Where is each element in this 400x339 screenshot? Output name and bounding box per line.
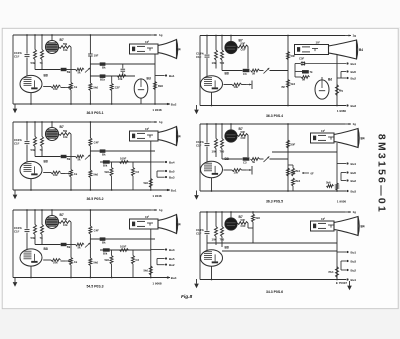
circuit 1: top supply bus wire [13, 34, 151, 36]
wire node long lower (circuit 6) [200, 250, 337, 252]
ground (circuit 1) [14, 104, 16, 109]
tube B7 (circuit 3) [51, 122, 53, 128]
wire terminal stub (circuit 2) [340, 72, 342, 79]
bottom return bus wire (circuit 5) [13, 277, 170, 279]
svg-text:0F: 0F [311, 171, 315, 175]
wire node W1 (circuit 3) [35, 156, 61, 158]
svg-text:Bu3: Bu3 [351, 104, 357, 108]
wire: B7 anode drop (circuit 5) [70, 222, 72, 258]
terminal Bu4 on bus (circuit 6) [346, 278, 348, 280]
svg-text:100F: 100F [120, 157, 127, 161]
tube B7 (circuit 1) [51, 35, 53, 41]
resistor 7k (circuit 5) [41, 210, 43, 225]
wire pot drop (circuit 2) [251, 81, 253, 90]
svg-text:B7: B7 [60, 213, 64, 217]
wire node W1 (circuit 5) [35, 244, 61, 246]
wire: B8 cathode to bus (circuit 5) [30, 266, 32, 277]
junction nodes (circuit 3) [26, 121, 28, 123]
bottom return bus wire (circuit 4) [200, 190, 346, 192]
svg-text:5k0: 5k0 [93, 173, 98, 177]
resistor 5k0 left (circuit 3) [110, 168, 113, 177]
tube Bd output (circuit 1) [134, 79, 148, 98]
resistor 10k (circuit 2) [215, 36, 217, 51]
potentiometer arrow (circuit 1) [61, 87, 66, 89]
svg-text:10k: 10k [234, 171, 239, 175]
svg-text:Bu5: Bu5 [169, 169, 175, 173]
wire drop (circuit 3) [111, 162, 113, 168]
potentiometer wiper arrow (circuit 2) [260, 70, 264, 72]
svg-text:100F: 100F [120, 245, 127, 249]
resistor Bk0 on speaker drop (circuit 1) [154, 82, 157, 90]
wire node (circuit 6) [248, 227, 253, 229]
svg-text:C4F: C4F [94, 141, 100, 145]
wire node W2 (circuit 3) [90, 150, 155, 152]
svg-text:Bu1: Bu1 [351, 278, 357, 282]
svg-text:C2F: C2F [115, 86, 121, 90]
svg-text:9k: 9k [302, 77, 306, 81]
svg-text:B4: B4 [361, 225, 365, 229]
terminal 1g (circuit 3 top bus end) [151, 121, 157, 123]
svg-text:1k: 1k [74, 260, 78, 264]
svg-text:1 9056: 1 9056 [337, 199, 347, 203]
capacitor C1 input (circuit 3) [26, 122, 28, 141]
svg-text:B8: B8 [44, 74, 48, 78]
svg-text:Bu3: Bu3 [169, 176, 175, 180]
svg-text:36.3 P0S.5: 36.3 P0S.5 [266, 199, 283, 203]
ground (circuit 3) [14, 190, 16, 195]
capacitor box C3 (circuit 2) [243, 69, 250, 72]
wire: left edge drop (circuit 6) [199, 212, 201, 280]
svg-text:7k0: 7k0 [220, 238, 225, 242]
resistor 5W 10k at tube B7 anode (circuit 1) [59, 46, 72, 49]
svg-text:50k: 50k [31, 61, 36, 65]
junction nodes (circuit 2) [206, 35, 208, 37]
resistor 5W 10k at tube B7 anode (circuit 3) [59, 133, 72, 136]
terminal Bu4 on bus (circuit 3) [167, 189, 169, 191]
bottom return bus wire (circuit 3) [13, 189, 170, 191]
bottom return bus wire (circuit 1) [13, 103, 170, 105]
svg-text:Bu2: Bu2 [169, 263, 175, 267]
resistor B1k box lower (circuit 1) [100, 74, 106, 78]
resistor 1k (circuit 5) [70, 258, 73, 266]
svg-text:8M3156—01: 8M3156—01 [375, 134, 386, 214]
svg-text:Fig.8: Fig.8 [181, 294, 193, 300]
tube B8 triode (circuit 3) [20, 161, 42, 178]
terminal 1g (circuit 5 top bus end) [151, 209, 157, 211]
capacitor C2 (circuit 5) [132, 256, 135, 265]
loudspeaker B4 horn (circuit 5) [130, 219, 159, 229]
wire node W2 (circuit 4) [222, 158, 243, 160]
terminal Bu1 (circuit 5) [151, 249, 165, 251]
tube B7 (circuit 2) [230, 36, 232, 42]
wire: center drop (circuit 1) [89, 35, 91, 83]
svg-text:Bu1: Bu1 [351, 250, 357, 254]
svg-text:5k0: 5k0 [105, 170, 110, 174]
terminal Bu2 (circuit 3) [157, 170, 165, 172]
resistor B/k box (circuit 5) [103, 248, 110, 251]
svg-text:C1F: C1F [14, 142, 20, 146]
svg-text:10³: 10³ [145, 40, 149, 44]
wire: B8 cathode to bus (circuit 6) [211, 266, 213, 279]
terminal Bu4 on bus (circuit 2) [346, 104, 348, 106]
resistor 10k horizontal (circuit 1) [117, 75, 126, 78]
resistor 7k0 (circuit 6) [221, 212, 223, 227]
resistor Bk box (circuit 3) [61, 155, 67, 158]
svg-text:B/k: B/k [103, 252, 108, 256]
resistor C2F (circuit 1) [111, 76, 113, 84]
svg-text:50F: 50F [241, 42, 246, 46]
wire (circuit 4) [270, 158, 289, 160]
terminal 1g (circuit 6 top bus end) [349, 211, 351, 213]
svg-text:B8: B8 [44, 160, 48, 164]
resistor 10k (circuit 6) [215, 212, 217, 227]
svg-text:Bk1: Bk1 [296, 170, 301, 173]
tube B8 triode (circuit 2) [201, 76, 223, 92]
svg-text:1 9048: 1 9048 [152, 194, 162, 198]
svg-text:B8: B8 [225, 246, 229, 250]
junction nodes (circuit 4) [206, 123, 208, 125]
wire: speaker drop (circuit 6) [336, 231, 338, 280]
circuit 2: top supply bus wire [200, 35, 345, 37]
wire: speaker drop (circuit 1) [154, 54, 156, 104]
loudspeaker B4 horn (circuit 3) [130, 131, 159, 141]
terminal Bu2 on bus (circuit 1) [167, 103, 169, 105]
wire node W3 (circuit 3) [100, 161, 151, 163]
loudspeaker B4 horn (circuit 6) [311, 221, 335, 231]
resistor Bk box upper (circuit 5) [100, 237, 106, 240]
svg-text:54.5 P0S.3: 54.5 P0S.3 [86, 285, 103, 289]
resistor WB 9k (circuit 2) [301, 76, 310, 79]
svg-text:Bu1: Bu1 [171, 188, 177, 192]
svg-text:B4: B4 [177, 135, 181, 139]
loudspeaker B4 horn (circuit 1) [130, 44, 159, 54]
svg-text:1g: 1g [159, 33, 163, 37]
svg-text:7k: 7k [40, 61, 44, 65]
svg-text:1g: 1g [159, 120, 163, 124]
resistor 50F at tube B7 anode (circuit 4) [237, 134, 248, 137]
capacitor 10F on center drop (circuit 1) [88, 54, 93, 55]
svg-text:1k: 1k [74, 172, 78, 176]
terminal Bu3 (circuit 2) [341, 77, 346, 79]
capacitor 10F on center drop (circuit 3) [88, 138, 92, 146]
svg-text:10³: 10³ [145, 215, 149, 219]
svg-text:10³: 10³ [316, 41, 320, 45]
wire node W2 (circuit 1) [90, 63, 155, 65]
svg-text:5k: 5k [78, 157, 82, 161]
svg-text:7k0: 7k0 [220, 150, 225, 154]
ground (circuit 5) [14, 278, 16, 283]
svg-text:10k: 10k [118, 77, 123, 81]
capacitor C1 input (circuit 2) [206, 36, 208, 55]
svg-text:10³: 10³ [321, 129, 325, 133]
svg-text:Bk: Bk [102, 153, 106, 157]
terminal Bu3 (circuit 3) [157, 176, 165, 178]
svg-text:Bu3: Bu3 [351, 189, 357, 193]
svg-text:10³: 10³ [321, 217, 325, 221]
resistor Bk box upper (circuit 3) [100, 149, 106, 152]
svg-text:Bd: Bd [328, 78, 332, 82]
terminal Bu1 (circuit 1) [155, 75, 165, 77]
bottom return bus wire (circuit 6) [200, 279, 346, 281]
capacitor box C3 (circuit 4) [243, 157, 250, 160]
svg-text:C2: C2 [136, 258, 140, 262]
svg-text:Bd: Bd [147, 77, 151, 81]
tube B8 triode (circuit 1) [20, 75, 42, 92]
resistor 10k (circuit 4) [215, 124, 217, 139]
wire (circuit 3) [67, 156, 76, 158]
svg-text:B4: B4 [359, 48, 363, 52]
svg-text:10k: 10k [212, 61, 217, 65]
svg-text:36.5 P0S.2: 36.5 P0S.2 [86, 197, 103, 201]
wire: right column drop (circuit 4) [287, 124, 289, 191]
svg-text:7k: 7k [40, 148, 44, 152]
resistor Pk4 on drop (circuit 6) [336, 267, 339, 278]
svg-text:Bu2: Bu2 [351, 76, 357, 80]
resistor 5k (circuit 4) [251, 158, 260, 161]
svg-text:7k0: 7k0 [220, 61, 225, 65]
svg-text:1 9048: 1 9048 [152, 108, 162, 112]
resistor stack Bk2 (circuit 4) [292, 178, 295, 186]
wire node W3 (circuit 1) [90, 75, 135, 77]
svg-text:10k: 10k [53, 87, 58, 91]
wire terminal stub (circuit 6) [340, 261, 342, 270]
svg-text:1k: 1k [74, 85, 78, 89]
resistor 5k0 on speaker drop (circuit 3) [149, 179, 152, 188]
svg-text:36.5 P0S.1: 36.5 P0S.1 [86, 111, 103, 115]
circuit 5: top supply bus wire [13, 209, 151, 211]
svg-text:B8: B8 [44, 247, 48, 251]
terminal Bu3 (circuit 4) [341, 180, 346, 182]
potentiometer wiper arrow (circuit 4) [260, 158, 264, 160]
terminal Bu1 (circuit 6) [337, 251, 346, 253]
resistor 50F right (circuit 2) [287, 52, 290, 60]
wire: speaker drop (circuit 3) [150, 141, 152, 190]
svg-text:10k: 10k [212, 150, 217, 154]
wire: anode drop (circuit 6) [247, 223, 249, 228]
svg-text:10k: 10k [234, 85, 239, 89]
resistor 5W 10k at tube B7 anode (circuit 5) [59, 221, 72, 224]
svg-text:Bk0: Bk0 [158, 84, 164, 88]
wire: right column drop (circuit 2) [287, 36, 289, 106]
svg-text:10k: 10k [53, 173, 58, 177]
svg-text:B8: B8 [225, 157, 229, 161]
terminal Bu3 (circuit 5) [157, 264, 165, 266]
svg-text:E 75007: E 75007 [336, 281, 348, 285]
wire drop (circuit 5) [111, 250, 113, 256]
svg-text:Bk: Bk [102, 241, 106, 245]
svg-text:36.3 P0S.4: 36.3 P0S.4 [266, 114, 283, 118]
wire terminal stub (circuit 4) [340, 173, 342, 181]
tube B7 (circuit 5) [51, 210, 53, 216]
junction nodes (circuit 1) [26, 34, 28, 36]
terminal Bu2 (circuit 4) [341, 172, 346, 174]
svg-text:10k: 10k [53, 261, 58, 265]
wire: left edge drop (circuit 4) [199, 124, 201, 191]
capacitor 10F on center drop (circuit 5) [88, 226, 92, 234]
wire stub cluster (circuit 2) [295, 71, 302, 73]
resistor 100F horizontal (circuit 3) [120, 161, 129, 164]
svg-text:Bk: Bk [102, 66, 106, 70]
potentiometer arrow at B8 (circuit 4) [242, 169, 247, 171]
svg-text:5k0: 5k0 [105, 258, 110, 262]
svg-text:Bu5: Bu5 [169, 257, 175, 261]
wire: Bd cathode to bus (circuit 1) [140, 98, 142, 104]
wire drop (circuit 3) [132, 162, 134, 168]
terminal 1g (circuit 2 top bus end) [349, 35, 351, 37]
loudspeaker B4 horn (circuit 4) [311, 133, 335, 143]
resistor 5k0 on speaker drop (circuit 5) [149, 266, 152, 275]
wire: anode drop (circuit 2) [247, 47, 249, 69]
bottom return bus wire (circuit 2) [200, 105, 346, 107]
svg-text:Bu1: Bu1 [351, 62, 357, 66]
svg-text:5k0: 5k0 [144, 181, 149, 185]
svg-text:Pk4: Pk4 [329, 270, 334, 274]
svg-text:1 9068: 1 9068 [152, 281, 162, 285]
svg-text:Mq: Mq [339, 89, 343, 93]
wire (circuit 1) [67, 69, 76, 71]
tube B7 (circuit 6) [230, 212, 232, 218]
svg-text:1g: 1g [353, 34, 357, 38]
potentiometer wiper arrow (circuit 1) [85, 68, 90, 73]
svg-text:Bu2: Bu2 [171, 102, 177, 106]
wire node W1 (circuit 1) [35, 69, 61, 71]
resistor 5k4 right (circuit 2) [287, 80, 290, 88]
resistor 100F horizontal (circuit 5) [120, 249, 129, 252]
wire drop (circuit 5) [132, 250, 134, 256]
svg-text:50k: 50k [31, 236, 36, 240]
resistor 5k0 (circuit 3) [89, 170, 92, 178]
svg-text:5k: 5k [252, 71, 256, 75]
terminal Bu3 (circuit 6) [341, 269, 346, 271]
svg-text:5k6: 5k6 [326, 181, 331, 185]
resistor 50F at tube B7 anode (circuit 2) [237, 45, 248, 48]
wire node W3 (circuit 5) [100, 249, 151, 251]
resistor 50k (circuit 3) [34, 122, 36, 137]
resistor stack Bk1 (circuit 4) [292, 165, 294, 168]
svg-text:50F: 50F [291, 143, 296, 147]
wire: left edge drop (circuit 3) [12, 122, 14, 190]
tube B8 triode (circuit 5) [20, 249, 42, 266]
potentiometer wiper arrow (circuit 5) [85, 243, 90, 248]
resistor 50F right (circuit 4) [287, 140, 290, 148]
wire: B8 cathode to bus (circuit 3) [30, 179, 32, 190]
svg-text:C1F: C1F [14, 55, 20, 59]
svg-text:C1F: C1F [196, 55, 202, 59]
wire pot drop (circuit 4) [251, 166, 253, 175]
terminal Bu2 (circuit 2) [341, 71, 346, 73]
wire: left edge drop (circuit 2) [199, 36, 201, 106]
svg-text:10k: 10k [63, 135, 68, 139]
resistor 5k0 (circuit 1) [89, 83, 92, 91]
wire (circuit 2) [270, 70, 289, 72]
wire: B8 cathode to bus (circuit 4) [211, 178, 213, 191]
svg-text:C4F: C4F [94, 229, 100, 233]
resistor 5k4 right (circuit 4) [287, 168, 290, 176]
svg-text:Bk: Bk [67, 70, 71, 74]
resistor 5k (circuit 5) [76, 243, 85, 246]
svg-text:Bk: Bk [67, 245, 71, 249]
capacitor C1 input (circuit 5) [26, 210, 28, 229]
wire node W2 (circuit 2) [222, 70, 243, 72]
svg-text:B/k: B/k [103, 164, 108, 168]
svg-text:C0F: C0F [241, 224, 247, 228]
svg-text:BF: BF [282, 85, 286, 89]
capacitor C2 coupling (circuit 1) [122, 64, 124, 68]
resistor 5k0 (circuit 6) [252, 212, 254, 214]
resistor 7k (circuit 3) [41, 122, 43, 137]
resistor Bk box upper (circuit 1) [100, 62, 106, 65]
wire: anode drop (circuit 4) [247, 135, 249, 157]
capacitor C5F (circuit 2) [295, 63, 301, 65]
potentiometer arrow (circuit 3) [61, 173, 66, 175]
resistor 10k at B8 anode (circuit 4) [224, 169, 233, 171]
svg-text:5k0: 5k0 [93, 261, 98, 265]
svg-text:5k: 5k [78, 70, 82, 74]
wire node W3 long (circuit 6) [207, 242, 337, 244]
svg-text:5k0: 5k0 [256, 216, 261, 220]
wire: B7 anode drop (circuit 3) [70, 134, 72, 170]
wire: speaker drop (circuit 5) [150, 229, 152, 278]
svg-text:5W: 5W [63, 42, 68, 46]
wire: left edge drop (circuit 1) [12, 35, 14, 104]
circuit 4: top supply bus wire [200, 123, 345, 125]
resistor 10k at B8 anode (circuit 5) [43, 259, 51, 261]
resistor 5k (circuit 1) [76, 68, 85, 71]
svg-text:C1F: C1F [14, 230, 20, 234]
wire: speaker drop (circuit 4) [336, 143, 338, 191]
svg-text:Bk: Bk [67, 157, 71, 161]
wire node W4 (circuit 4) [272, 151, 337, 153]
resistor 50F at tube B7 anode (circuit 6) [237, 222, 248, 225]
wire: left edge drop (circuit 5) [12, 210, 14, 278]
svg-text:C0F: C0F [241, 136, 247, 140]
resistor 10k at B8 anode (circuit 2) [224, 84, 233, 86]
svg-text:5k0: 5k0 [93, 86, 98, 90]
potentiometer arrow at B8 (circuit 2) [242, 84, 247, 86]
svg-text:10k: 10k [212, 238, 217, 242]
capacitor C1 input (circuit 4) [206, 124, 208, 143]
svg-text:5k4: 5k4 [291, 82, 296, 86]
capacitor C1 input (circuit 6) [206, 212, 208, 231]
resistor 5k0 (circuit 5) [89, 258, 92, 266]
terminal Bu1 (circuit 3) [151, 161, 165, 163]
tube B8 triode (circuit 6) [201, 250, 223, 266]
svg-text:34.3 P0S.6: 34.3 P0S.6 [266, 290, 283, 294]
wire: center drop (circuit 3) [89, 122, 91, 170]
resistor Bk box (circuit 1) [61, 68, 67, 71]
wire: center drop (circuit 5) [89, 210, 91, 258]
svg-text:Bu3: Bu3 [351, 259, 357, 263]
svg-text:C2: C2 [136, 170, 140, 174]
terminal Bu4 on bus (circuit 4) [346, 190, 348, 192]
resistor 50k (circuit 5) [34, 210, 36, 225]
tube Bd output (circuit 2) [321, 77, 323, 80]
circuit 3: top supply bus wire [13, 121, 151, 123]
svg-text:5W: 5W [63, 217, 68, 221]
svg-text:B7: B7 [60, 125, 64, 129]
wire: B8 cathode to bus (circuit 2) [211, 92, 213, 105]
svg-text:Bu2: Bu2 [351, 179, 357, 183]
terminal 1g (circuit 4 top bus end) [349, 123, 351, 125]
svg-text:1g: 1g [353, 122, 357, 126]
resistor 5k (circuit 3) [76, 155, 85, 158]
svg-text:B4: B4 [361, 137, 365, 141]
svg-text:B7: B7 [60, 38, 64, 42]
wire: B8 cathode to bus (circuit 1) [30, 93, 32, 104]
resistor on drop (circuit 4) [336, 183, 339, 190]
svg-text:50F: 50F [241, 130, 246, 134]
svg-text:7k: 7k [310, 70, 314, 74]
